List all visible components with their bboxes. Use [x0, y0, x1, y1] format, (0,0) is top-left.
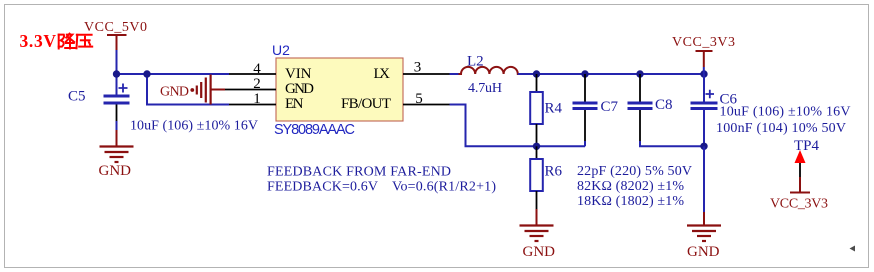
IC U2 SY8089AAAC body — [272, 42, 403, 138]
svg-text:GND: GND — [687, 244, 720, 260]
svg-text:4: 4 — [253, 61, 261, 77]
capacitor C7 — [573, 74, 619, 141]
svg-text:18KΩ (1802) ±1%: 18KΩ (1802) ±1% — [577, 194, 684, 209]
junction C6/C8 ground bus — [700, 143, 707, 150]
wire output net (top rail) — [518, 73, 704, 75]
resistor R4 — [530, 74, 562, 146]
svg-text:R4: R4 — [545, 101, 563, 117]
svg-text:3: 3 — [414, 60, 422, 76]
svg-text:C8: C8 — [655, 97, 673, 113]
wire LX to L2 — [450, 73, 462, 75]
svg-text:FB/OUT: FB/OUT — [341, 96, 391, 112]
capacitor C5 — [68, 84, 130, 122]
wire C5 to ground — [116, 121, 118, 130]
wire EN loop down — [147, 74, 229, 105]
annotation title 3.3V buck (3.3V降压) — [20, 31, 93, 51]
power port VCC_3V3 (TP4) — [770, 177, 828, 212]
junction FB node — [533, 143, 540, 150]
svg-text:10uF (106) ±10% 16V: 10uF (106) ±10% 16V — [720, 105, 851, 120]
svg-text:EN: EN — [285, 96, 304, 112]
wire C7 bottom to FB node — [584, 141, 586, 146]
pin 3 LX — [403, 60, 450, 76]
svg-text:VCC_3V3: VCC_3V3 — [770, 197, 828, 212]
svg-text:TP4: TP4 — [794, 138, 820, 154]
power port VCC_3V3 (top right) — [672, 35, 735, 67]
svg-text:GND: GND — [285, 81, 314, 97]
ground GND (C6/C8) — [687, 212, 721, 260]
resistor R6 — [530, 146, 562, 209]
svg-text:GND: GND — [160, 85, 189, 100]
svg-text:100nF (104) 10% 50V: 100nF (104) 10% 50V — [716, 121, 846, 136]
pin 5 FB/OUT — [403, 91, 450, 107]
marker bottom-right — [850, 246, 856, 252]
ground GND (R6) — [520, 209, 556, 260]
svg-text:GND: GND — [523, 244, 556, 260]
svg-text:GND: GND — [99, 163, 132, 179]
junction at R4 top — [533, 70, 540, 77]
svg-text:3.3V: 3.3V — [20, 31, 57, 51]
svg-text:10uF (106) ±10% 16V: 10uF (106) ±10% 16V — [130, 119, 258, 134]
inductor L2 — [459, 54, 521, 97]
test point TP4 — [794, 138, 820, 177]
svg-text:LX: LX — [374, 66, 391, 82]
svg-text:82KΩ (8202) ±1%: 82KΩ (8202) ±1% — [577, 179, 684, 194]
capacitor C8 — [628, 74, 673, 141]
pin 4 VIN — [229, 61, 276, 77]
wire down to ground — [703, 146, 705, 212]
junction at C7 top — [581, 70, 588, 77]
wire input horizontal to VIN — [117, 73, 230, 75]
junction at C6/VCC_3V3 — [700, 70, 707, 77]
svg-text:2: 2 — [253, 76, 261, 92]
wire VCC_3V3 stem — [703, 67, 705, 74]
junction at EN branch — [143, 70, 150, 77]
svg-text:R6: R6 — [545, 164, 563, 180]
svg-text:VCC_3V3: VCC_3V3 — [672, 35, 735, 50]
capacitor C6 — [691, 74, 738, 146]
power port GND (pin 2) — [160, 75, 225, 105]
svg-text:SY8089AAAC: SY8089AAAC — [274, 122, 355, 138]
pin 2 GND — [225, 76, 276, 92]
svg-text:C5: C5 — [68, 89, 86, 105]
svg-text:U2: U2 — [272, 42, 290, 58]
svg-text:4.7uH: 4.7uH — [468, 81, 502, 96]
junction at C8 top — [636, 70, 643, 77]
power port VCC_5V0 — [84, 20, 147, 50]
svg-text:C7: C7 — [601, 99, 619, 115]
svg-text:Vo=0.6(R1/R2+1): Vo=0.6(R1/R2+1) — [392, 180, 496, 195]
wire C8 bottom to C6 bottom — [640, 141, 704, 146]
wire VCC_5V0 to C5 — [116, 50, 118, 95]
junction at VCC/C5 — [113, 70, 120, 77]
svg-text:5: 5 — [415, 91, 423, 107]
pin 1 EN — [229, 91, 276, 107]
svg-text:22pF (220) 5% 50V: 22pF (220) 5% 50V — [577, 164, 692, 179]
ground GND (C5) — [99, 130, 134, 179]
svg-text:FEEDBACK FROM FAR-END: FEEDBACK FROM FAR-END — [267, 165, 451, 180]
svg-text:FEEDBACK=0.6V: FEEDBACK=0.6V — [267, 180, 378, 195]
wire FB/OUT to divider node — [450, 105, 586, 147]
svg-text:VIN: VIN — [285, 66, 312, 82]
svg-text:1: 1 — [253, 91, 261, 107]
svg-text:VCC_5V0: VCC_5V0 — [84, 20, 147, 35]
